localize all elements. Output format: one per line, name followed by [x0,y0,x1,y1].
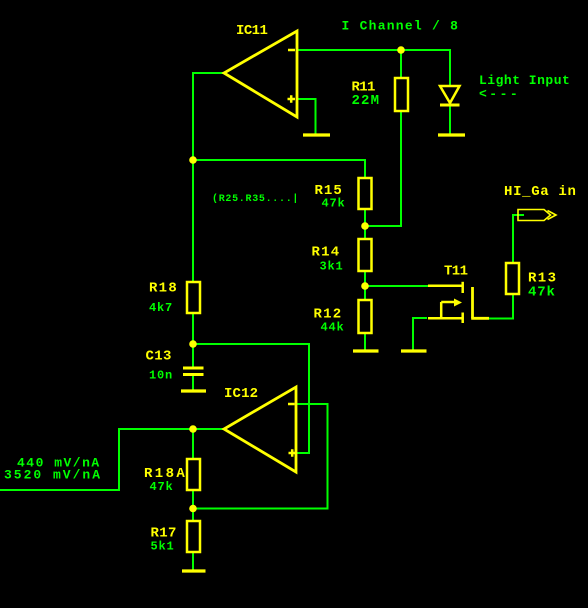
svg-text:4k7: 4k7 [149,301,173,315]
svg-text:IC11: IC11 [236,23,267,39]
svg-text:47k: 47k [150,480,174,494]
svg-text:T11: T11 [444,264,468,280]
svg-text:47k: 47k [322,197,346,211]
svg-text:I Channel / 8: I Channel / 8 [342,19,460,34]
svg-text:<---: <--- [479,87,520,102]
svg-text:R14: R14 [312,245,341,261]
svg-text:5k1: 5k1 [151,540,175,554]
svg-text:(R25.R35....|: (R25.R35....| [212,193,299,205]
svg-text:47k: 47k [528,285,556,301]
svg-text:IC12: IC12 [224,386,258,402]
svg-text:44k: 44k [321,321,345,335]
svg-text:22M: 22M [352,93,381,109]
svg-text:10n: 10n [149,369,173,383]
svg-text:3520 mV/nA: 3520 mV/nA [4,468,102,483]
svg-text:C13: C13 [146,349,172,365]
svg-text:R18: R18 [149,281,178,297]
svg-text:HI_Ga in: HI_Ga in [504,184,577,200]
svg-text:3k1: 3k1 [320,260,344,274]
